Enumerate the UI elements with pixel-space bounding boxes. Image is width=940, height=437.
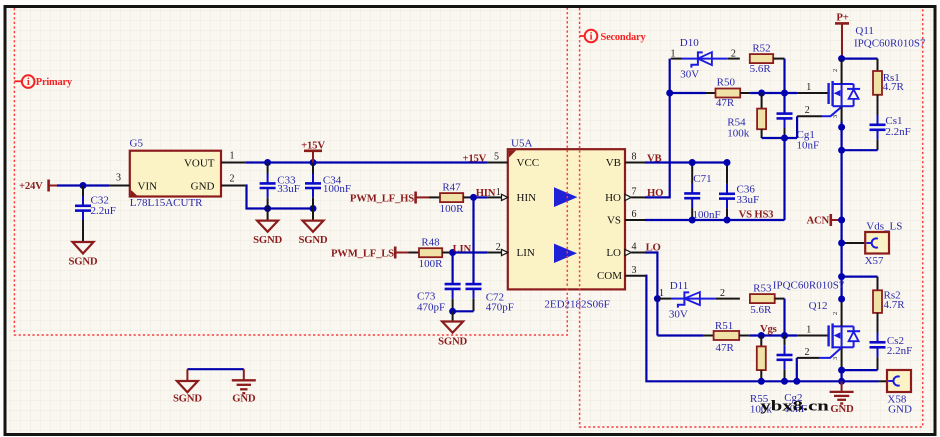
node Rs2 branch junction <box>838 273 845 280</box>
resistor R52 5.6R <box>750 42 785 74</box>
svg-text:+15V: +15V <box>463 153 487 165</box>
region Secondary dashed border <box>580 8 923 427</box>
wire HIN junction to pin <box>474 196 488 198</box>
node Cg2 bottom <box>781 378 788 385</box>
svg-text:470pF: 470pF <box>417 301 445 313</box>
resistor R55 100k <box>750 336 773 416</box>
Q12 designator labels <box>773 279 845 312</box>
svg-text:Q12: Q12 <box>809 300 828 312</box>
svg-text:X57: X57 <box>865 255 884 267</box>
svg-text:D11: D11 <box>670 280 689 292</box>
svg-text:LIN: LIN <box>517 247 535 259</box>
wire LIN junction to pin <box>453 251 488 253</box>
svg-text:GND: GND <box>888 403 912 415</box>
node R55 top junction <box>758 332 765 339</box>
node drain dot <box>838 296 845 303</box>
svg-text:5.6R: 5.6R <box>750 63 772 75</box>
wire drain to Rs1 <box>842 57 878 59</box>
svg-text:1: 1 <box>806 82 811 93</box>
svg-text:100nF: 100nF <box>323 183 351 195</box>
svg-text:30V: 30V <box>680 69 699 81</box>
wire source to COM rail <box>840 370 842 381</box>
transistor Q12 <box>829 312 861 360</box>
svg-text:7: 7 <box>632 186 637 197</box>
ground GND tie symbol <box>232 369 256 404</box>
svg-text:Vds_LS: Vds_LS <box>866 220 902 232</box>
wire HIN down to C72 <box>472 197 474 284</box>
resistor Rs2 4.7R <box>873 277 905 343</box>
connector X57 Vds_LS <box>842 220 903 267</box>
svg-text:1: 1 <box>496 187 501 198</box>
capacitor C33 <box>260 163 300 209</box>
svg-text:R47: R47 <box>442 181 461 193</box>
svg-text:R48: R48 <box>421 236 440 248</box>
wire LO row to R51 <box>657 334 703 336</box>
svg-text:LO: LO <box>606 247 621 259</box>
wire R50 row left <box>670 92 706 94</box>
svg-text:VCC: VCC <box>517 157 540 169</box>
svg-text:SGND: SGND <box>438 336 467 348</box>
node HIN junction <box>470 194 477 201</box>
pin drain Q12 <box>841 299 843 326</box>
svg-text:3: 3 <box>116 172 121 183</box>
transistor Q11 <box>829 69 861 118</box>
node HO junction <box>666 90 673 97</box>
resistor R50 47R <box>706 77 751 110</box>
svg-text:Primary: Primary <box>36 77 73 88</box>
svg-text:HIN: HIN <box>517 192 537 204</box>
svg-text:47R: 47R <box>716 97 735 109</box>
wire kelvin source Q11 pin 2 <box>797 105 842 138</box>
svg-text:2: 2 <box>496 242 501 253</box>
svg-text:IPQC60R010S7: IPQC60R010S7 <box>854 37 926 49</box>
svg-text:C71: C71 <box>693 173 711 185</box>
svg-text:2: 2 <box>832 312 839 315</box>
pin 3 COM stub <box>625 265 645 276</box>
pin drain Q11 <box>841 59 843 84</box>
node Cg1 bottom junction <box>781 135 788 142</box>
node C71 bottom junction <box>689 217 696 224</box>
svg-text:33uF: 33uF <box>737 194 760 206</box>
capacitor C36 33uF <box>719 163 759 221</box>
svg-text:Secondary: Secondary <box>601 32 647 43</box>
node C36 top junction <box>724 159 731 166</box>
junction C34 top <box>310 159 317 166</box>
wire R53 down to Vgs <box>783 299 785 336</box>
svg-text:470pF: 470pF <box>486 301 514 313</box>
svg-text:VOUT: VOUT <box>184 158 215 170</box>
junction C34 bottom <box>310 205 317 212</box>
svg-text:2: 2 <box>805 347 810 358</box>
wire port to R47 <box>416 196 429 198</box>
svg-text:2: 2 <box>720 288 725 299</box>
node X57 junction <box>838 240 845 247</box>
wire kelvin source Q12 pin 2 <box>797 347 842 381</box>
wire to Rs2 <box>842 276 878 278</box>
wire Cs2 bottom to source <box>842 369 878 371</box>
svg-text:PWM_LF_HS: PWM_LF_HS <box>350 192 414 204</box>
wire R52 down to gate row <box>783 59 785 93</box>
svg-text:G5: G5 <box>130 138 144 150</box>
node R54 top junction <box>758 90 765 97</box>
port ACN <box>806 214 841 227</box>
svg-text:VB: VB <box>606 157 621 169</box>
power P+ <box>835 12 849 59</box>
resistor R48 100R <box>409 236 453 270</box>
wire source rail down <box>840 122 842 299</box>
pin 1 HIN stub <box>488 187 508 201</box>
op-amp driver U5A 2ED2182S06F <box>508 137 625 310</box>
pin 7 HO stub <box>625 186 645 200</box>
wire Cs1 bottom to rail <box>842 149 878 151</box>
ground GND symbol <box>830 381 854 415</box>
pin source Q12 <box>841 347 843 370</box>
diode D10 30V <box>671 37 740 80</box>
wire G5 GND down to SGND rail <box>245 186 313 209</box>
node Cg1 top junction <box>781 90 788 97</box>
svg-text:1: 1 <box>659 288 664 299</box>
buffer triangle upper <box>554 187 577 207</box>
svg-text:PWM_LF_LS: PWM_LF_LS <box>331 247 394 259</box>
wire Vgs row <box>749 334 797 336</box>
svg-text:P+: P+ <box>836 12 848 24</box>
pin 6 VS stub <box>625 209 645 220</box>
svg-text:6: 6 <box>632 209 637 220</box>
svg-text:SGND: SGND <box>69 256 98 268</box>
capacitor Cg1 10nF <box>777 93 820 151</box>
svg-text:U5A: U5A <box>511 137 532 149</box>
svg-text:i: i <box>590 32 593 43</box>
svg-text:R50: R50 <box>717 77 736 89</box>
wire R50 to gate Q11 <box>750 92 797 94</box>
resistor R51 47R <box>704 320 750 354</box>
tag Primary <box>14 75 73 88</box>
node GND junction <box>838 378 845 385</box>
capacitor C71 100nF <box>684 163 720 222</box>
svg-text:2: 2 <box>805 105 810 116</box>
svg-text:5: 5 <box>494 152 499 163</box>
capacitor Cs1 2.2nF <box>870 115 911 150</box>
node C36 bottom junction <box>724 217 731 224</box>
ground SGND under C73 <box>438 311 467 347</box>
pin 1 VOUT stub <box>221 150 245 162</box>
node D11 junction <box>654 295 661 302</box>
svg-text:3: 3 <box>832 115 839 118</box>
node junction <box>449 308 456 315</box>
pin 3 VIN stub <box>110 172 130 185</box>
node LIN junction <box>449 249 456 256</box>
svg-text:ybx8.cn: ybx8.cn <box>760 397 828 413</box>
svg-text:30V: 30V <box>669 309 688 321</box>
svg-text:D10: D10 <box>680 37 699 49</box>
svg-text:ACN: ACN <box>806 215 829 227</box>
svg-text:3: 3 <box>832 357 839 360</box>
svg-text:4: 4 <box>632 242 637 253</box>
pin 1 gate Q12 stub <box>797 324 828 335</box>
svg-text:2.2nF: 2.2nF <box>885 126 910 138</box>
capacitor C34 <box>305 163 351 209</box>
svg-text:IPQC60R010S7: IPQC60R010S7 <box>773 279 845 291</box>
junction C33 bottom <box>264 205 271 212</box>
svg-text:GND: GND <box>191 181 215 193</box>
capacitor Cg2 10nF <box>777 336 807 415</box>
svg-text:SGND: SGND <box>173 393 202 405</box>
wire port to R48 <box>395 252 408 254</box>
wire LIN down to C73 <box>452 253 454 285</box>
svg-text:1: 1 <box>806 324 811 335</box>
svg-text:L78L15ACUTR: L78L15ACUTR <box>130 197 203 209</box>
ground SGND tie symbol <box>173 369 202 404</box>
svg-text:i: i <box>27 77 30 88</box>
svg-text:100k: 100k <box>727 127 750 139</box>
tag Secondary <box>580 30 647 43</box>
svg-text:VIN: VIN <box>138 181 158 193</box>
svg-text:2.2nF: 2.2nF <box>887 345 912 357</box>
port PWM_LF_HS <box>350 192 416 205</box>
svg-text:100R: 100R <box>440 203 465 215</box>
svg-text:47R: 47R <box>716 342 735 354</box>
svg-text:SGND: SGND <box>253 234 282 246</box>
svg-text:10nF: 10nF <box>797 139 820 151</box>
wire D10 row left <box>671 58 677 60</box>
svg-text:Q11: Q11 <box>855 25 874 37</box>
connector X58 GND <box>879 370 912 415</box>
svg-text:R53: R53 <box>753 283 772 295</box>
svg-text:GND: GND <box>232 393 256 405</box>
wire VS_HS3 vertical <box>783 138 785 220</box>
diode D11 30V <box>659 280 740 321</box>
node pin2 bottom <box>793 378 800 385</box>
power +15V <box>301 140 325 163</box>
node junction at C32 <box>80 182 87 189</box>
pin 2 GND stub <box>221 173 245 185</box>
svg-text:4.7R: 4.7R <box>883 81 905 93</box>
wire +15V net VOUT to VCC <box>245 161 487 163</box>
capacitor Cs2 2.2nF <box>870 335 913 370</box>
pin 8 VB stub <box>625 152 645 163</box>
resistor R54 100k <box>727 93 766 139</box>
svg-text:GND: GND <box>830 403 854 415</box>
wire HO to gate network <box>645 59 670 198</box>
ground SGND under C34 <box>299 209 328 246</box>
svg-text:2ED2182S06F: 2ED2182S06F <box>544 299 609 311</box>
node source dot <box>838 124 845 131</box>
ground SGND under C32 <box>69 242 98 268</box>
svg-text:4.7R: 4.7R <box>884 299 906 311</box>
wire LO to gate network <box>645 253 657 336</box>
pin 5 VCC stub <box>488 152 508 163</box>
svg-text:R51: R51 <box>715 320 733 332</box>
svg-text:VS HS3: VS HS3 <box>739 209 774 221</box>
resistor Rs1 4.7R <box>873 59 904 125</box>
node R55 bottom <box>758 378 765 385</box>
svg-text:2: 2 <box>731 48 736 59</box>
svg-text:3: 3 <box>632 265 637 276</box>
svg-text:SGND: SGND <box>299 234 328 246</box>
pin 1 gate Q11 stub <box>797 82 828 93</box>
wire VS row <box>645 219 785 221</box>
wire VB net <box>645 161 727 163</box>
wire SGND GND tie <box>187 368 243 370</box>
pin 4 LO stub <box>625 242 645 256</box>
svg-text:2: 2 <box>230 173 235 184</box>
node source junction <box>838 367 845 374</box>
svg-text:5.6R: 5.6R <box>750 304 772 316</box>
wire R54 Cg1 bottoms <box>762 137 798 139</box>
svg-text:100R: 100R <box>419 258 444 270</box>
resistor R53 5.6R <box>750 283 785 316</box>
pin source Q11 <box>841 107 843 122</box>
capacitor C72 470pF <box>466 284 514 313</box>
port PWM_LF_LS <box>331 247 395 260</box>
node Cg2 top junction <box>781 332 788 339</box>
svg-text:1: 1 <box>671 48 676 59</box>
pin 2 LIN stub <box>488 242 508 255</box>
svg-text:8: 8 <box>632 152 637 163</box>
node P+ drain junction <box>838 55 845 62</box>
buffer triangle lower <box>554 244 577 263</box>
regulator G5 L78L15ACUTR <box>130 138 222 209</box>
svg-text:2: 2 <box>832 69 839 72</box>
junction C33 top <box>264 159 271 166</box>
svg-text:VS: VS <box>607 215 621 227</box>
region Primary dashed border <box>14 8 567 335</box>
svg-text:33uF: 33uF <box>277 183 300 195</box>
svg-text:1: 1 <box>230 150 235 161</box>
Q11 designator labels <box>854 25 926 49</box>
capacitor C32 <box>75 186 116 242</box>
svg-text:HO: HO <box>605 192 621 204</box>
ground SGND under C33 <box>253 209 282 246</box>
node Cs1 junction <box>838 147 845 154</box>
svg-text:2.2uF: 2.2uF <box>91 205 116 217</box>
node C71 top junction <box>689 159 696 166</box>
svg-text:+24V: +24V <box>19 180 43 192</box>
svg-text:COM: COM <box>597 270 622 282</box>
wire COM net <box>645 276 879 382</box>
resistor R47 100R <box>429 181 474 215</box>
capacitor C73 470pF <box>417 284 461 313</box>
wire C73 C72 bottoms <box>453 310 474 312</box>
node ACN junction <box>838 217 845 224</box>
wire +24V to VIN <box>49 185 110 187</box>
svg-text:R52: R52 <box>752 42 770 54</box>
port +24V <box>19 180 49 193</box>
